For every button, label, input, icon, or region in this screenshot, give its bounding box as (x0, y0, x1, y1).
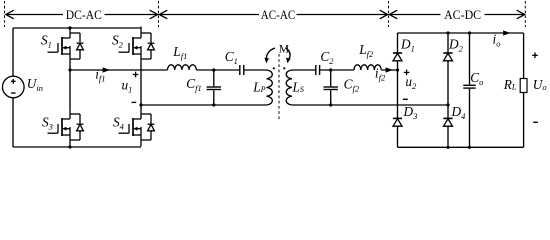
transistor S1 (48, 27, 84, 66)
node: rectifier input - (446, 103, 449, 106)
wire: left rail top (12, 28, 14, 77)
plus u2 (404, 71, 410, 73)
svg-text:AC-DC: AC-DC (444, 7, 481, 22)
plus u1 (133, 74, 139, 76)
transistor S2 (119, 27, 155, 66)
wire: load branch bottom (523, 93, 525, 148)
inductor Lf1 (168, 65, 197, 70)
DC-AC dimension arrows (6, 14, 63, 16)
capacitor Co (469, 33, 471, 85)
wire: C2 to Lf2 (320, 69, 354, 71)
inductor Ls secondary winding (286, 70, 292, 105)
diode D1 (393, 53, 402, 61)
node: Co top (468, 31, 471, 34)
transformer core axis dashed (278, 54, 280, 119)
arrow if2 (386, 67, 393, 72)
capacitor Cf1 (213, 70, 215, 86)
node: D2 top (446, 31, 449, 34)
node: rectifier input + (396, 68, 399, 71)
svg-text:M: M (279, 44, 289, 56)
node: S1 drain junction (68, 26, 71, 29)
wire: left leg mid (69, 65, 71, 108)
wire: rectifier left rail (397, 33, 399, 147)
mutual coupling arrow right (286, 48, 290, 61)
node: left leg midpoint (68, 68, 71, 71)
node: Cf2 top junction (329, 68, 332, 71)
mutual coupling arrow left (266, 48, 275, 61)
AC-AC dimension arrows (160, 14, 259, 16)
diode D4 (443, 118, 452, 126)
node: Cf1 bottom junction (212, 103, 215, 106)
AC-DC dimension arrows (390, 14, 441, 16)
polarity dot secondary (283, 67, 285, 69)
wire: +rail u1 to Lf1 (70, 69, 168, 71)
wire: rectifier right rail (447, 33, 449, 147)
inductor Lp primary winding (267, 70, 273, 105)
separator dashed line right (524, 1, 526, 27)
minus u1 (132, 101, 137, 103)
minus u2 (403, 98, 408, 100)
separator dashed line left (4, 1, 6, 27)
wire: Lf2 to rectifier (381, 69, 397, 71)
wire: output top rail (398, 32, 524, 34)
diode D2 (443, 53, 452, 61)
node: Co bottom (468, 146, 471, 149)
inductor Lf2 (354, 65, 381, 70)
polarity dot primary (273, 67, 275, 69)
svg-text:DC-AC: DC-AC (66, 7, 102, 22)
wire: bottom rail (13, 146, 141, 148)
wire: Ls to C2 (292, 69, 316, 71)
arrow if1 (103, 67, 110, 72)
node: right leg midpoint (139, 103, 142, 106)
node: S3 source junction (68, 145, 71, 148)
node: Cf2 bottom junction (329, 103, 332, 106)
diode D3 (393, 118, 402, 126)
capacitor C1 (239, 65, 241, 75)
wire: -rail primary (141, 104, 267, 106)
svg-text:AC-AC: AC-AC (261, 7, 296, 22)
node: Cf1 top junction (212, 68, 215, 71)
capacitor Cf2 (330, 70, 332, 86)
plus Uo (532, 54, 538, 56)
arrow io (503, 30, 510, 35)
transistor S4 (119, 108, 155, 147)
capacitor C2 (315, 65, 317, 75)
wire: top rail (13, 27, 141, 29)
wire: C1 to Lp (244, 69, 267, 71)
node: D4 bottom (446, 146, 449, 149)
wire: right leg mid (140, 65, 142, 108)
source Uin circle (3, 76, 25, 98)
wire: -rail secondary to right leg (292, 104, 448, 106)
wire: Lf1 to C1 (196, 69, 240, 71)
wire: output bottom rail (398, 146, 524, 148)
resistor RL (520, 79, 527, 93)
wire: load branch top (523, 33, 525, 79)
minus Uo (533, 121, 538, 123)
wire: left rail bottom (12, 99, 14, 148)
separator dashed line mid-right (388, 1, 390, 27)
separator dashed line mid-left (158, 1, 160, 27)
transistor S3 (48, 108, 84, 147)
